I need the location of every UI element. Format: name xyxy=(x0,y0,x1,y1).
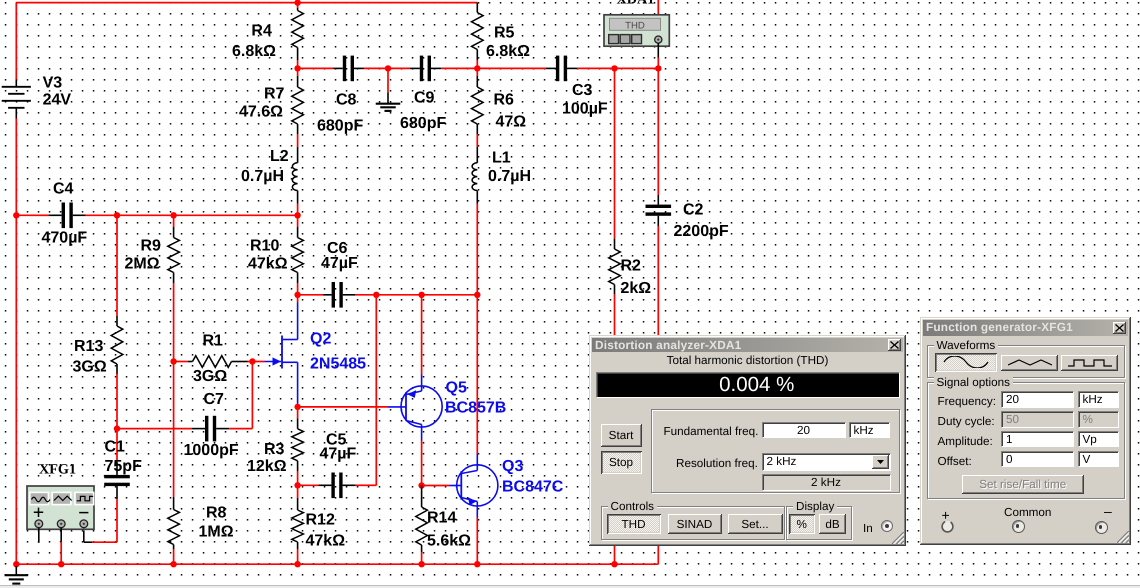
svg-text:47.6Ω: 47.6Ω xyxy=(239,103,283,120)
svg-text:1MΩ: 1MΩ xyxy=(199,524,234,541)
svg-text:XFG1: XFG1 xyxy=(39,462,76,478)
svg-text:THD: THD xyxy=(625,21,645,32)
svg-text:R7: R7 xyxy=(264,85,285,102)
node junction x117/y215 xyxy=(114,212,120,218)
battery V3 xyxy=(15,80,17,87)
svg-text:0.7µH: 0.7µH xyxy=(241,168,284,185)
wire left rail lower xyxy=(15,119,17,565)
svg-text:V3: V3 xyxy=(43,74,63,91)
wire C4 row xyxy=(16,214,40,216)
svg-text:3GΩ: 3GΩ xyxy=(73,359,107,376)
svg-text:24V: 24V xyxy=(43,91,72,108)
node junction C6/C5 vertical xyxy=(373,292,379,298)
svg-text:R10: R10 xyxy=(250,237,279,254)
svg-text:1000pF: 1000pF xyxy=(184,442,239,459)
wire bottom ground rail xyxy=(16,563,658,565)
node junction rail Q3 xyxy=(474,561,480,567)
svg-text:C9: C9 xyxy=(414,90,435,107)
node junction left-rail / C4 wire xyxy=(13,212,19,218)
wire C5 riser vertical xyxy=(375,295,377,486)
ground symbol near C8/C9 xyxy=(387,68,389,92)
transistor Q3 BC847C NPN xyxy=(476,295,478,454)
wire C6 row xyxy=(298,294,323,296)
svg-text:0.7µH: 0.7µH xyxy=(488,168,531,185)
wire C5 to riser corner xyxy=(366,484,376,486)
node junction R2 top xyxy=(611,65,617,71)
wire gnd node to C9 xyxy=(388,67,410,69)
capacitor C7 xyxy=(205,416,208,442)
XFG1 minus terminal mark xyxy=(79,512,88,514)
svg-text:Q5: Q5 xyxy=(446,380,467,397)
svg-text:C7: C7 xyxy=(204,391,225,408)
svg-text:6.8kΩ: 6.8kΩ xyxy=(486,43,530,60)
node junction rail R12 xyxy=(294,561,300,567)
wire C1 to XFG minus xyxy=(116,509,118,542)
node junction R4 top xyxy=(294,0,300,6)
resistor R1 horizontal xyxy=(174,361,188,363)
wire C9 to R5/R6 node xyxy=(441,67,477,69)
node junction rail R2 xyxy=(611,561,617,567)
resistor R9 xyxy=(168,238,180,273)
svg-text:L1: L1 xyxy=(492,150,511,167)
svg-text:R12: R12 xyxy=(306,512,335,529)
wire R8 to rail xyxy=(173,549,175,564)
wire R5R6 node to C3 xyxy=(477,67,546,69)
node junction XFG common / ground rail xyxy=(58,561,64,567)
node junction L2/R10 xyxy=(294,212,300,218)
wire R9 to R1/R8 rail xyxy=(173,283,175,497)
capacitor C9 xyxy=(420,56,423,82)
wire C8 row from R4/R7 node xyxy=(298,67,333,69)
svg-text:C2: C2 xyxy=(683,202,704,219)
wire C8 to ground node xyxy=(364,67,388,69)
svg-text:C3: C3 xyxy=(572,82,593,99)
svg-text:R14: R14 xyxy=(427,510,456,527)
wire x117 column down to R13 xyxy=(116,215,118,316)
wire C4 to R9 to R10 column xyxy=(86,214,298,216)
inductor L2 xyxy=(297,147,299,163)
svg-text:R1: R1 xyxy=(203,333,224,350)
node junction R1/C7/gate xyxy=(249,358,255,364)
svg-text:3GΩ: 3GΩ xyxy=(193,368,227,385)
node junction R10/C6/Q2 drain xyxy=(294,292,300,298)
node junction R9 top xyxy=(170,212,176,218)
svg-text:47kΩ: 47kΩ xyxy=(306,533,346,550)
capacitor C3 xyxy=(556,56,559,82)
R5 column xyxy=(476,3,478,8)
svg-text:R9: R9 xyxy=(141,237,162,254)
instrument window: Function generator-XFG1 xyxy=(920,317,1131,545)
svg-text:C4: C4 xyxy=(53,181,74,198)
svg-text:R3: R3 xyxy=(264,441,285,458)
wire XDA terminal stub above canvas xyxy=(657,0,659,15)
capacitor C5 xyxy=(331,473,334,499)
svg-text:XDA1: XDA1 xyxy=(617,0,655,8)
svg-text:47kΩ: 47kΩ xyxy=(248,255,288,272)
XFG1 common lead xyxy=(60,528,62,542)
resistor R12 xyxy=(297,485,299,498)
svg-text:R6: R6 xyxy=(494,92,515,109)
svg-text:Q2: Q2 xyxy=(310,331,331,348)
wire left rail upper (V3 top lead) xyxy=(15,3,17,80)
resistor R8 xyxy=(168,510,180,545)
node junction Q5 top xyxy=(418,292,424,298)
node junction Q5/R14/Q3 base xyxy=(418,482,424,488)
svg-text:2N5485: 2N5485 xyxy=(310,356,366,373)
node junction rail R14 xyxy=(418,561,424,567)
wire C1 top xyxy=(116,429,118,450)
resistor R14 xyxy=(421,486,423,506)
distortion analyzer icon XDA1 xyxy=(604,15,669,46)
svg-text:L2: L2 xyxy=(270,148,289,165)
capacitor C8 xyxy=(343,56,346,82)
wire C7 vertical xyxy=(251,362,253,429)
svg-text:470µF: 470µF xyxy=(42,230,88,247)
resistor R7 xyxy=(297,68,299,76)
wire R9 rail down xyxy=(173,215,175,227)
svg-text:75pF: 75pF xyxy=(105,458,143,475)
transistor Q5 BC857B PNP xyxy=(421,295,423,375)
node junction C2/XDA column xyxy=(655,65,661,71)
bottom canvas strip xyxy=(0,585,1140,588)
svg-text:12kΩ: 12kΩ xyxy=(247,458,287,475)
capacitor C6 xyxy=(332,282,335,308)
svg-text:R5: R5 xyxy=(494,25,515,42)
XFG1 plus lead stub xyxy=(38,528,40,543)
resistor R13 xyxy=(111,326,123,364)
wire Q3 base row xyxy=(422,485,449,487)
node junction R3/C5/R12 xyxy=(294,482,300,488)
svg-text:BC857B: BC857B xyxy=(445,400,506,417)
wire XDA terminal to C2 node xyxy=(657,43,659,57)
svg-text:C1: C1 xyxy=(105,439,126,456)
wire top rail xyxy=(16,2,477,4)
instrument window: Distortion analyzer-XDA1 xyxy=(589,335,906,546)
svg-text:C8: C8 xyxy=(336,92,357,109)
svg-text:BC847C: BC847C xyxy=(502,479,564,496)
capacitor C1 xyxy=(104,475,130,478)
resistor R2 xyxy=(614,68,616,238)
svg-text:2MΩ: 2MΩ xyxy=(125,255,160,272)
wire Q2 source row to Q5 base xyxy=(298,406,388,408)
node junction R13/C7/C1 xyxy=(114,425,120,431)
svg-text:Q3: Q3 xyxy=(502,458,523,475)
node junction L1/C6row/Q3 collector xyxy=(474,292,480,298)
node junction R5/R6/C3 xyxy=(474,65,480,71)
wire C3 to R2 node xyxy=(577,67,615,69)
wire C2 column xyxy=(657,68,659,195)
svg-text:2200pF: 2200pF xyxy=(674,223,729,240)
svg-text:47µF: 47µF xyxy=(321,255,358,272)
node junction rail R8 xyxy=(170,561,176,567)
jfet Q2 xyxy=(297,295,299,303)
svg-text:680pF: 680pF xyxy=(317,118,363,135)
svg-text:47µF: 47µF xyxy=(320,446,357,463)
function generator icon XFG1 xyxy=(27,486,94,529)
capacitor C4 xyxy=(62,203,65,229)
XFG1 plus terminal mark xyxy=(34,508,43,517)
node junction rail left xyxy=(13,561,19,567)
resistor R3 xyxy=(297,407,299,419)
resistor R10 xyxy=(297,215,299,227)
svg-text:R13: R13 xyxy=(74,338,103,355)
wire R2 node to C2 node xyxy=(615,67,659,69)
svg-text:6.8kΩ: 6.8kΩ xyxy=(232,43,276,60)
svg-text:2kΩ: 2kΩ xyxy=(621,280,652,297)
svg-text:100µF: 100µF xyxy=(562,101,608,118)
resistor R6 xyxy=(476,68,478,76)
svg-text:R2: R2 xyxy=(621,258,642,275)
svg-text:R8: R8 xyxy=(206,505,227,522)
svg-text:47Ω: 47Ω xyxy=(496,114,527,131)
inductor L1 xyxy=(476,147,478,163)
ground symbol bottom left xyxy=(15,564,17,566)
node junction R1 left xyxy=(170,358,176,364)
capacitor C2 xyxy=(646,205,672,208)
node junction R4/R7/C8 xyxy=(294,65,300,71)
wire gate stub xyxy=(252,361,264,363)
node junction ground tap xyxy=(385,65,391,71)
XFG1 terminals xyxy=(35,520,43,528)
svg-text:5.6kΩ: 5.6kΩ xyxy=(427,533,471,550)
wire L1 to C6 row xyxy=(476,204,478,295)
svg-text:R4: R4 xyxy=(251,22,272,39)
node junction Q2 source/R3 xyxy=(294,404,300,410)
svg-text:680pF: 680pF xyxy=(400,115,446,132)
